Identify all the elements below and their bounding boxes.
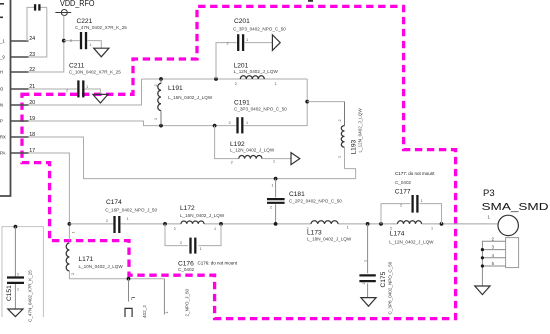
off-page connector (C201)	[272, 35, 280, 51]
box outline around C151	[2, 227, 43, 317]
wire pin20 to rail riser	[29, 79, 142, 105]
capacitor C191	[238, 117, 243, 133]
wire VDD_RFO drop to pin22	[29, 16, 64, 73]
svg-text:1: 1	[347, 226, 349, 230]
capacitor C175	[359, 275, 375, 281]
magenta dashed boundary	[22, 6, 456, 318]
wire hanging end	[163, 279, 165, 315]
ground (P3)	[475, 286, 490, 295]
node P3 pin4	[481, 256, 484, 259]
svg-text:24: 24	[29, 36, 35, 42]
svg-text:2_NPO_J_50: 2_NPO_J_50	[185, 288, 190, 316]
wire RF trunk	[69, 223, 498, 225]
wire L192 right	[262, 158, 291, 160]
svg-text:2: 2	[270, 206, 272, 210]
svg-text:1: 1	[154, 118, 158, 120]
IC pin net names (cut off at left edge)	[0, 3, 6, 156]
svg-text:C_16P_0402_NPO_J_50: C_16P_0402_NPO_J_50	[105, 208, 157, 213]
svg-text:1: 1	[127, 217, 129, 221]
wire C191 right riser	[244, 79, 308, 126]
svg-text:C181: C181	[289, 191, 305, 198]
svg-text:1: 1	[272, 184, 274, 188]
svg-text:C_10N_0402_X7R_K_25: C_10N_0402_X7R_K_25	[69, 69, 121, 74]
wire pin21 to C211	[29, 88, 78, 90]
component body cut at bottom edge	[125, 308, 132, 317]
wire C151 leads	[14, 227, 16, 309]
svg-text:L173: L173	[307, 229, 322, 236]
wire drop to cut component	[128, 279, 130, 302]
ground (C151)	[8, 309, 23, 317]
svg-text:L_15N_0402_J_LQW: L_15N_0402_J_LQW	[168, 95, 213, 100]
wire pin24 riser to top capacitor	[27, 7, 34, 41]
svg-text:C_2P2_0402_NPO_C_50: C_2P2_0402_NPO_C_50	[289, 198, 342, 203]
svg-text:2: 2	[180, 241, 182, 245]
svg-text:_9: _9	[0, 55, 5, 60]
svg-text:C_3P6_0402_NPO_C_50: C_3P6_0402_NPO_C_50	[388, 261, 393, 314]
svg-text:C_0402: C_0402	[178, 267, 195, 272]
svg-text:C174: C174	[106, 199, 122, 206]
svg-text:L191: L191	[168, 85, 183, 92]
svg-text:L193: L193	[351, 139, 358, 154]
capacitor C221	[81, 32, 86, 49]
node C176 loop left	[163, 222, 167, 226]
svg-text:1: 1	[17, 288, 19, 292]
svg-text:1: 1	[431, 227, 433, 231]
inductor L192	[239, 156, 262, 159]
wire C201 right	[245, 42, 273, 44]
svg-text:2: 2	[229, 121, 231, 125]
svg-text:C191: C191	[234, 100, 250, 107]
svg-text:H: H	[0, 70, 3, 75]
svg-text:1: 1	[273, 160, 275, 164]
ground (C211)	[93, 94, 108, 103]
capacitor C176	[191, 238, 196, 254]
svg-text:1: 1	[275, 82, 277, 86]
ground (C175)	[361, 298, 376, 307]
svg-text:C177: C177	[395, 188, 411, 195]
node C177 loop left	[379, 222, 383, 226]
node P3 pin3	[481, 248, 484, 251]
svg-text:2: 2	[154, 84, 158, 86]
svg-text:1: 1	[90, 43, 92, 47]
svg-text:2: 2	[17, 273, 19, 277]
inductor L172	[181, 221, 204, 224]
wire C181 leads	[275, 179, 277, 224]
svg-text:2: 2	[174, 227, 176, 231]
node C181 top	[274, 177, 278, 181]
svg-text:N: N	[0, 103, 3, 108]
svg-text:402_J: 402_J	[142, 305, 147, 318]
wire P3 ground pins 2-5	[482, 241, 505, 286]
wire C201 branch riser	[216, 43, 237, 79]
node L193 link	[305, 100, 309, 104]
svg-text:L_16N_0402_J_LQW: L_16N_0402_J_LQW	[180, 213, 225, 218]
wire pin18 long net	[29, 137, 356, 179]
capacitor C174	[115, 216, 120, 233]
node C201 branch	[214, 77, 218, 81]
inductor L191	[160, 79, 162, 83]
svg-text:C201: C201	[234, 18, 250, 25]
node C177 loop right	[440, 222, 444, 226]
wire C221 left	[64, 40, 80, 42]
svg-text:C175: C175	[380, 271, 387, 287]
svg-text:2: 2	[307, 227, 309, 231]
svg-text:2: 2	[338, 119, 342, 121]
IC U1 body edge	[0, 0, 11, 196]
capacitor C201	[238, 34, 243, 51]
svg-text:C_3P3_0402_NPO_C_50: C_3P3_0402_NPO_C_50	[233, 26, 286, 31]
IC pin number labels	[29, 36, 35, 154]
capacitor C2xx (cut off at top edge)	[35, 4, 39, 10]
wire rail y79	[142, 78, 308, 80]
wire L171 bottom run	[69, 271, 164, 279]
wire L192 branch drop	[215, 126, 239, 159]
wire C177 parallel loop	[381, 204, 442, 224]
svg-text:VDD_RFO: VDD_RFO	[60, 0, 95, 8]
svg-text:1: 1	[421, 199, 423, 203]
capacitor C181	[267, 199, 285, 203]
off-page connector (L192)	[291, 153, 300, 165]
node L191 top	[159, 77, 163, 81]
wire pin19 with jog	[29, 121, 237, 126]
svg-text:P3: P3	[483, 188, 495, 199]
svg-text:C_3P3_0402_NPO_C_50: C_3P3_0402_NPO_C_50	[234, 107, 287, 112]
svg-text:2: 2	[400, 203, 402, 207]
wire C176 parallel loop	[165, 224, 221, 246]
svg-text:C177: do not mount: C177: do not mount	[395, 171, 435, 176]
svg-text:C_0402: C_0402	[395, 180, 412, 185]
mark at top edge	[308, 0, 313, 2]
capacitor C151	[7, 278, 24, 283]
svg-text:1: 1	[165, 311, 169, 313]
svg-text:2: 2	[231, 161, 233, 165]
P3 body	[506, 238, 519, 268]
node C151 top	[14, 225, 18, 229]
wire C221 right to ground	[87, 41, 101, 49]
svg-text:L_12N_0402_J_LQW: L_12N_0402_J_LQW	[358, 108, 363, 153]
svg-text:2: 2	[106, 219, 108, 223]
node P3 pin5	[481, 264, 484, 267]
svg-text:2: 2	[66, 89, 68, 93]
wire pin17 drop to L171	[29, 153, 70, 241]
IC pin stubs 24..17	[11, 41, 29, 153]
svg-text:2: 2	[227, 42, 229, 46]
svg-text:2: 2	[70, 39, 72, 43]
wire top capacitor to pin23 riser	[29, 7, 47, 57]
ground (C221)	[94, 48, 109, 57]
svg-text:L_12N_0402_J_LQW: L_12N_0402_J_LQW	[230, 147, 275, 152]
svg-text:2: 2	[71, 273, 75, 275]
svg-text:L_12N_0402_J_LQW: L_12N_0402_J_LQW	[389, 239, 434, 244]
wire L193 bottom to pin18 net	[345, 147, 356, 178]
inductor L193	[344, 102, 346, 126]
svg-text:2: 2	[362, 282, 366, 284]
svg-text:L_12N_0402_J_LQW: L_12N_0402_J_LQW	[234, 69, 279, 74]
svg-text:2: 2	[390, 226, 392, 230]
svg-text:P: P	[0, 119, 3, 124]
svg-text:_1: _1	[0, 39, 5, 44]
svg-text:C_47N_0402_X7R_K_25: C_47N_0402_X7R_K_25	[28, 270, 33, 322]
svg-text:SMA_SMD: SMA_SMD	[482, 201, 550, 213]
capacitor C177	[413, 195, 418, 213]
svg-text:1: 1	[246, 38, 248, 42]
wire link to L193	[307, 101, 344, 103]
svg-text:C151: C151	[6, 285, 13, 301]
svg-text:1: 1	[72, 231, 76, 233]
power symbol VDD_RFO	[55, 10, 71, 16]
svg-text:L172: L172	[180, 205, 195, 212]
node C181 bottom	[274, 222, 278, 226]
svg-text:1: 1	[200, 247, 202, 251]
node L192 branch	[213, 124, 217, 128]
svg-text:L_10N_0402_J_LQW: L_10N_0402_J_LQW	[79, 264, 124, 269]
svg-text:2: 2	[235, 82, 237, 86]
svg-text:C176: do not mount: C176: do not mount	[198, 261, 238, 266]
inductor L173	[311, 221, 338, 224]
node C176 loop right	[219, 222, 223, 226]
node L191 bottom	[159, 124, 163, 128]
wire C175 branch	[367, 224, 369, 298]
svg-text:RX: RX	[0, 135, 6, 140]
svg-text:1: 1	[214, 227, 216, 231]
svg-text:1: 1	[338, 156, 342, 158]
svg-text:1: 1	[246, 121, 248, 125]
svg-text:C_47N_0402_X7R_K_25: C_47N_0402_X7R_K_25	[75, 25, 127, 30]
svg-text:PA: PA	[0, 151, 5, 156]
svg-text:L_18N_0402_J_LQW: L_18N_0402_J_LQW	[307, 236, 352, 241]
svg-text:1: 1	[86, 85, 88, 89]
connector P3 circle	[498, 215, 518, 235]
inductor L171	[66, 243, 69, 271]
node L173 right / C175 branch	[366, 222, 370, 226]
svg-text:1: 1	[364, 260, 368, 262]
svg-text:L174: L174	[390, 230, 405, 237]
inductor L201	[240, 76, 264, 79]
wire C211 right to ground	[85, 89, 101, 94]
node VDD/C221 junction	[62, 39, 66, 43]
node pin17/trunk junction	[68, 222, 72, 226]
node bottom branch	[127, 277, 131, 281]
inductor L174	[398, 221, 422, 224]
svg-text:L171: L171	[79, 256, 94, 263]
capacitor C211	[78, 80, 83, 97]
